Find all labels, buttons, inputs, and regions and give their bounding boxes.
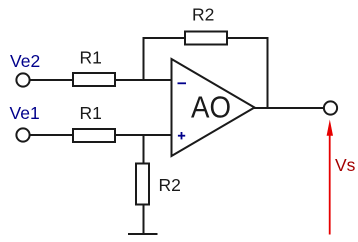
svg-text:R2: R2: [159, 175, 181, 195]
wire R2 to ground: [143, 204, 145, 235]
wire Ve1 terminal to R1: [30, 134, 73, 136]
wire R1 to op-amp inverting input, node A: [115, 79, 172, 81]
terminal Ve1: [16, 128, 29, 141]
svg-text:R1: R1: [80, 48, 102, 68]
resistor R2 (to ground): [136, 164, 149, 205]
wire R1 to op-amp non-inverting input, node B: [115, 134, 172, 136]
wire feedback top right segment: [227, 37, 269, 39]
wire node B down to R2: [143, 134, 145, 165]
op-amp inverting pin mark -: [178, 82, 187, 84]
svg-text:AO: AO: [191, 90, 231, 125]
svg-text:Ve2: Ve2: [10, 51, 40, 71]
svg-text:R1: R1: [80, 103, 102, 123]
arrow Vs: [327, 120, 333, 235]
wire Ve2 terminal to R1: [30, 79, 73, 81]
terminal Vs output: [324, 101, 337, 114]
svg-text:Ve1: Ve1: [10, 103, 40, 123]
resistor R2 (feedback): [185, 32, 227, 45]
resistor R1 (non-inverting input): [73, 129, 115, 142]
ground: [128, 233, 158, 235]
wire feedback top left segment: [143, 37, 186, 39]
wire feedback drop to output: [267, 37, 269, 109]
svg-text:R2: R2: [192, 5, 214, 25]
terminal Ve2: [16, 73, 29, 86]
op-amp AO: [172, 59, 255, 156]
wire feedback riser from node A up: [143, 37, 145, 81]
wire op-amp output to terminal: [254, 107, 324, 109]
op-amp non-inverting pin mark +: [178, 132, 185, 139]
svg-text:Vs: Vs: [335, 155, 356, 175]
resistor R1 (inverting input): [73, 73, 115, 86]
